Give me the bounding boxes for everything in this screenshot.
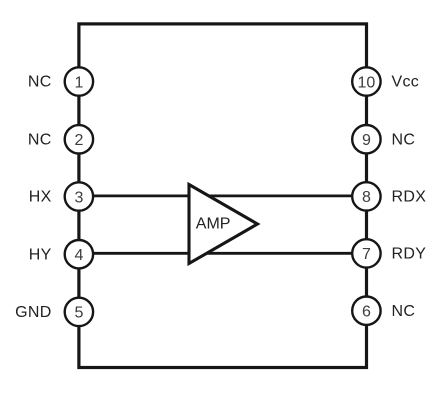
svg-text:NC: NC (28, 74, 52, 91)
svg-text:RDY: RDY (392, 246, 427, 263)
svg-text:8: 8 (362, 189, 371, 206)
svg-text:HX: HX (29, 189, 52, 206)
svg-text:6: 6 (362, 304, 371, 321)
svg-text:AMP: AMP (196, 216, 231, 233)
svg-text:Vcc: Vcc (392, 74, 420, 91)
svg-text:NC: NC (392, 303, 416, 320)
svg-text:1: 1 (74, 74, 83, 91)
svg-text:GND: GND (15, 304, 51, 321)
svg-text:HY: HY (29, 246, 52, 263)
svg-text:4: 4 (74, 247, 83, 264)
svg-text:NC: NC (392, 131, 416, 148)
svg-text:3: 3 (74, 189, 83, 206)
svg-text:2: 2 (74, 132, 83, 149)
svg-text:NC: NC (28, 131, 52, 148)
svg-text:9: 9 (362, 132, 371, 149)
svg-text:RDX: RDX (392, 189, 427, 206)
svg-text:7: 7 (362, 246, 371, 263)
svg-text:5: 5 (74, 305, 83, 322)
svg-text:10: 10 (358, 74, 376, 91)
